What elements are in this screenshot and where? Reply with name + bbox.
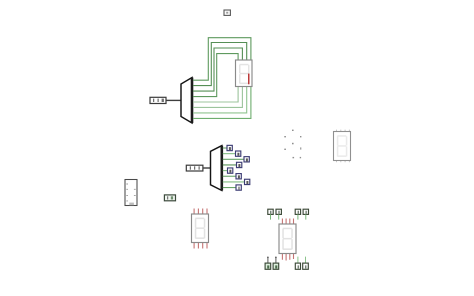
input pin T2 xyxy=(276,209,281,214)
wire stub under T3 xyxy=(297,214,299,219)
wire SP1 out5 to D1 bottom pin 1 xyxy=(193,87,238,103)
output pin O4 xyxy=(237,162,242,167)
wire SP2 out8 xyxy=(223,187,236,189)
wire stub under T1 xyxy=(270,214,272,219)
wire stub above B4 xyxy=(305,257,307,264)
input pin B1 xyxy=(265,263,271,269)
wire SP2 out2 xyxy=(223,153,236,155)
splitter SP2 xyxy=(211,146,222,191)
lit segment C (red) of D1 xyxy=(248,74,250,85)
pin P0 (lone small pin, top) xyxy=(224,10,230,15)
seven-segment display D3 (bottom left, floating red pins) xyxy=(192,209,209,249)
seven-segment display D4 (bottom middle, floating red pins) xyxy=(279,219,296,261)
output pin O3 xyxy=(244,157,249,162)
input pin B4 xyxy=(303,263,309,269)
wire SP1 out4 loop to D1 top pin 1 xyxy=(193,54,238,97)
output pin O5 xyxy=(228,168,233,173)
ghost 7-segment label dots (a f b g e c d dp) xyxy=(284,130,301,159)
wire SP1 out6 to D1 bottom pin 2 xyxy=(193,87,242,108)
wire SP1 out3 loop to D1 top pin 2 xyxy=(193,48,242,91)
wire SP2 out5 xyxy=(223,170,228,172)
wire stub under T2 xyxy=(278,214,280,219)
input pin T1 xyxy=(268,209,273,214)
input pin IN1 value 110 xyxy=(150,97,166,103)
register-like component REG (left) xyxy=(125,180,137,206)
wire SP1 out7 to D1 bottom pin 3 xyxy=(193,87,247,113)
input pin IN2 value 111 xyxy=(186,165,203,171)
output pin O2 xyxy=(236,151,241,156)
output pin O6 xyxy=(236,174,241,179)
wire stub under T4 xyxy=(305,214,307,219)
wire SP2 out6 xyxy=(223,175,236,177)
wire stub above B2 xyxy=(275,257,277,264)
splitter SP1 xyxy=(181,78,192,124)
wire IN2 to splitter SP2 xyxy=(203,167,211,169)
wire SP1 out2 loop to D1 top pin 3 xyxy=(193,43,247,86)
input pin B2 xyxy=(273,263,279,269)
wire SP1 out8 to D1 bottom pin 4 xyxy=(193,87,251,119)
wire SP1 out1 loop to D1 top pin 4 xyxy=(193,38,251,80)
input pin B3 xyxy=(295,263,300,269)
seven-segment display D1 xyxy=(236,60,253,87)
output pin O8 xyxy=(236,185,241,190)
small pin G1 (value box) xyxy=(164,195,175,201)
wire stub above B3 xyxy=(297,257,299,264)
seven-segment display D2 (all segments off) xyxy=(334,130,351,163)
wire SP2 out3 xyxy=(223,158,244,160)
output pin O7 xyxy=(245,179,250,184)
wire IN1 to splitter SP1 xyxy=(166,99,181,101)
output pin O1 xyxy=(227,145,232,150)
wire SP2 out7 xyxy=(223,181,245,183)
wire SP2 out1 xyxy=(223,147,227,149)
wire SP2 out4 xyxy=(223,164,237,166)
input pin T3 xyxy=(295,209,300,214)
input pin T4 xyxy=(303,209,308,214)
wire stub above B1 xyxy=(267,257,269,264)
